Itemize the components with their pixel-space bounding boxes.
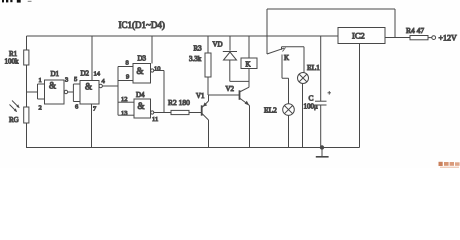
wire IC2 out to R4 (385, 37, 410, 39)
svg-text:V1: V1 (196, 92, 205, 100)
svg-text:6: 6 (75, 104, 79, 111)
svg-text:EL1: EL1 (307, 63, 320, 72)
svg-text:4: 4 (102, 78, 106, 85)
svg-text:D3: D3 (138, 55, 147, 63)
svg-text:V2: V2 (226, 85, 235, 93)
resistor R1 (5, 50, 29, 66)
gate D1 (38, 70, 69, 112)
svg-text:+12V: +12V (439, 34, 458, 43)
wire K coil bottom to V2 collector (248, 69, 250, 88)
svg-text:14: 14 (94, 71, 101, 78)
wire C bottom (320, 105, 322, 148)
pin 7 (91, 104, 93, 148)
transistor V2 (226, 85, 250, 106)
svg-text:K: K (284, 54, 289, 62)
svg-text:5: 5 (74, 76, 77, 83)
svg-text:R4 47: R4 47 (406, 26, 424, 35)
wire EL2 bottom (288, 115, 290, 147)
wire node to V2 base (208, 95, 240, 101)
wire contact NO side to EL2 (282, 55, 289, 104)
photoresistor RG (9, 101, 29, 125)
wire R3 to V1 collector node (207, 77, 209, 95)
svg-text:&: & (49, 81, 56, 91)
wire D3 out (154, 71, 164, 113)
pin 14 (91, 36, 93, 81)
wire RG bottom lead (26, 123, 28, 148)
relay contact K (267, 47, 289, 62)
resistor R4 (406, 26, 428, 40)
wire D4 out to R2 (154, 112, 171, 114)
gate D3 (118, 55, 161, 84)
watermark (439, 162, 460, 168)
gate D2 (73, 36, 105, 148)
wire V1 emitter to ground rail (208, 120, 210, 148)
pin 6 (73, 101, 80, 103)
D1 input tie wire (37, 84, 39, 99)
svg-text:3.3k: 3.3k (189, 55, 202, 63)
pin 8 (118, 66, 133, 68)
wire top +V rail (27, 35, 339, 37)
svg-text:R3: R3 (194, 45, 203, 53)
svg-text:1: 1 (39, 77, 42, 84)
svg-text:2: 2 (39, 105, 42, 112)
relay coil K (241, 58, 257, 69)
svg-text:13: 13 (121, 110, 128, 117)
pin 9 (118, 80, 133, 82)
resistor R3 (189, 45, 211, 78)
svg-text:IC2: IC2 (352, 31, 365, 41)
wire R1 top lead (26, 36, 28, 50)
svg-text:C: C (309, 94, 314, 103)
svg-text:D2: D2 (81, 70, 90, 78)
svg-text:&: & (85, 82, 92, 92)
transistor V1 (196, 92, 209, 120)
pin 2 (38, 98, 45, 100)
svg-text:100k: 100k (5, 58, 20, 66)
wire contact to EL1 (282, 47, 305, 73)
lamp EL1 (298, 63, 321, 84)
gate D4 (118, 91, 158, 123)
pin 5 (73, 83, 80, 85)
svg-text:IC1(D1~D4): IC1(D1~D4) (119, 20, 165, 30)
wire supply loop to relay contact (267, 9, 395, 54)
svg-text:VD: VD (213, 41, 223, 49)
svg-text:11: 11 (152, 116, 158, 123)
svg-text:7: 7 (93, 106, 97, 113)
capacitor C (304, 36, 332, 111)
svg-text:R2 180: R2 180 (168, 98, 190, 107)
wire R2 to V1 base (189, 112, 202, 114)
svg-text:100μ: 100μ (304, 103, 319, 111)
wire R1-RG junction to D1 inputs (27, 65, 38, 107)
IC U2 box IC2 (338, 28, 385, 44)
svg-text:12: 12 (121, 96, 128, 103)
diode VD (213, 36, 238, 60)
svg-text:&: & (138, 101, 145, 111)
wire D3 D4 input tie (117, 67, 119, 116)
svg-text:RG: RG (9, 116, 19, 124)
terminal +12V (432, 34, 457, 43)
wire R4 to terminal (428, 37, 432, 39)
svg-text:EL2: EL2 (264, 106, 277, 115)
wire D1 out to D2 in (68, 91, 74, 93)
wire EL1 bottom (302, 84, 304, 148)
pin 13 (118, 114, 134, 116)
svg-text:8: 8 (126, 60, 129, 67)
lamp EL2 (264, 104, 294, 116)
wire D3 vcc drop (151, 36, 153, 64)
svg-text:&: & (137, 66, 144, 76)
wire bottom ground rail (26, 147, 360, 149)
ground (316, 145, 329, 157)
resistor R2 (168, 98, 190, 115)
wire IC2 bottom to ground rail (359, 44, 361, 148)
wire relay coil bottom node (230, 80, 249, 82)
wire VD anode down (229, 60, 231, 81)
svg-text:9: 9 (126, 74, 129, 81)
pin 1 (38, 83, 45, 85)
wire R3 top (207, 36, 209, 53)
pin 12 (118, 101, 134, 103)
svg-text:D4: D4 (136, 91, 145, 99)
wire D2 out to D3 D4 inputs (102, 85, 118, 87)
wire V2 emitter to ground rail (249, 106, 251, 148)
svg-text:3: 3 (65, 77, 68, 84)
wire K coil top (248, 36, 250, 58)
svg-text:K: K (246, 61, 251, 69)
svg-text:D1: D1 (51, 70, 60, 78)
D2 input tie wire (72, 84, 74, 102)
svg-text:10: 10 (154, 66, 161, 73)
